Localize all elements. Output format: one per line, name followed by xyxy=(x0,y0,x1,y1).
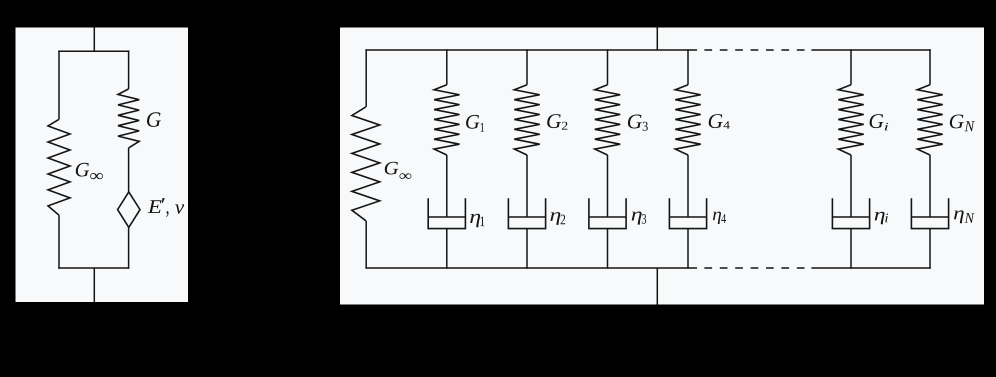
wire G_infinity branch upper xyxy=(365,49,367,107)
label eta1 xyxy=(470,214,484,227)
wire piston rod eta2 xyxy=(526,155,528,217)
label Gi xyxy=(870,114,889,130)
wire branch Gi upper xyxy=(850,49,852,85)
wire right branch lower xyxy=(128,227,130,268)
wire branch eta2 lower xyxy=(526,229,528,269)
wire right branch middle xyxy=(128,148,130,192)
dashpot etaN xyxy=(911,198,948,228)
spring GN xyxy=(917,85,942,155)
label eta4 xyxy=(713,212,726,224)
boundary box left model xyxy=(16,28,189,303)
dashpot eta3 xyxy=(589,198,626,228)
wire bottom stem right model xyxy=(656,268,658,305)
spring G4 xyxy=(675,85,700,155)
wire branch G3 upper xyxy=(607,49,609,85)
label GN xyxy=(950,115,975,132)
wire branch G1 upper xyxy=(446,49,448,85)
wire bottom rail left model xyxy=(58,267,129,269)
wire top bus solid left section xyxy=(365,49,697,51)
wire branch etaN lower xyxy=(929,229,931,269)
wire piston rod etaN xyxy=(929,155,931,217)
wire top stem left model xyxy=(93,28,95,52)
wire branch eta4 lower xyxy=(687,229,689,269)
label E',nu xyxy=(148,198,184,217)
label G left model xyxy=(147,112,161,127)
spring G_infinity left model xyxy=(48,119,70,215)
wire left branch lower xyxy=(58,215,60,269)
dashpot eta4 xyxy=(669,198,706,228)
wire bottom bus dashed section xyxy=(704,267,805,269)
wire piston rod eta3 xyxy=(607,155,609,217)
wire G_infinity branch lower xyxy=(365,221,367,269)
diamond element E',nu xyxy=(118,192,140,228)
boundary box right model xyxy=(340,28,984,305)
wire right branch upper xyxy=(128,50,130,88)
wire left branch upper xyxy=(58,50,60,119)
wire piston rod etai xyxy=(850,155,852,217)
label eta3 xyxy=(632,212,647,225)
wire branch GN upper xyxy=(929,49,931,85)
spring G1 xyxy=(434,85,459,155)
label eta2 xyxy=(550,212,565,225)
wire bottom stem left model xyxy=(93,268,95,302)
wire branch eta1 lower xyxy=(446,229,448,269)
wire bottom bus solid right section xyxy=(811,267,930,269)
label G2 xyxy=(547,114,567,130)
wire top rail left model xyxy=(58,50,129,52)
label G4 xyxy=(709,114,730,129)
label etaN xyxy=(954,210,975,223)
wire piston rod eta4 xyxy=(687,155,689,217)
dashpot eta2 xyxy=(508,198,545,228)
spring G_infinity right model xyxy=(352,107,380,221)
label G_infinity right model xyxy=(385,162,412,179)
spring Gi xyxy=(838,85,863,155)
wire branch G4 upper xyxy=(687,49,689,85)
label etai xyxy=(875,212,888,225)
spring G left model xyxy=(118,89,139,148)
label G1 xyxy=(466,115,484,132)
label G_infinity left model xyxy=(76,163,103,180)
spring G3 xyxy=(595,85,620,155)
wire top bus dashed section xyxy=(704,49,805,51)
dashpot eta1 xyxy=(428,198,465,228)
wire branch G2 upper xyxy=(526,49,528,85)
wire top bus solid right section xyxy=(811,49,930,51)
spring G2 xyxy=(514,85,539,155)
wire branch etai lower xyxy=(850,229,852,269)
wire top stem right model xyxy=(656,28,658,51)
wire branch eta3 lower xyxy=(607,229,609,269)
label G3 xyxy=(628,115,648,131)
wire bottom bus solid left section xyxy=(365,267,697,269)
dashpot etai xyxy=(832,198,869,228)
wire piston rod eta1 xyxy=(446,155,448,217)
